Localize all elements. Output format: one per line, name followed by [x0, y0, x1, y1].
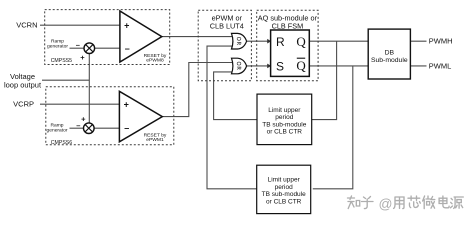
svg-text:generator: generator: [47, 127, 68, 133]
wire OR G1 output to R input of latch: [247, 40, 271, 42]
svg-text:–: –: [76, 41, 80, 50]
svg-text:–: –: [125, 44, 130, 54]
svg-text:S: S: [276, 59, 284, 73]
svg-text:DB: DB: [385, 50, 395, 57]
watermark zhihu @yongxinzuodianyuan (CJK drawn as paths): [348, 196, 464, 209]
wire PWML output: [410, 65, 426, 67]
OR gate G2: [232, 58, 247, 74]
svg-text:generator: generator: [47, 43, 68, 49]
mixer X2 (multiplier circle): [84, 123, 95, 134]
wire Qbar output to DB sub-module: [309, 65, 368, 67]
limit box B2 (Limit upper period TB sub-module or CLB CTR): [257, 165, 311, 213]
ePWM or CLB LUT4 dashed box: [198, 10, 251, 80]
wire mixer X1 output to comparator U1 - input: [95, 47, 120, 49]
wire VCRP to comparator U2 + input: [40, 103, 120, 105]
svg-text:PWMH: PWMH: [429, 37, 453, 46]
wire ramp generator to mixer X1: [70, 47, 85, 49]
svg-text:–: –: [124, 123, 129, 133]
svg-text:or CLB CTR: or CLB CTR: [266, 199, 302, 206]
wire limit box B1 output to OR gate G2 bottom input: [214, 72, 257, 120]
svg-text:CLB LUT4: CLB LUT4: [210, 21, 244, 30]
glyph zuo: [423, 196, 435, 209]
svg-text:PWML: PWML: [429, 61, 452, 70]
wire Qbar feedback down to limit box B2: [313, 66, 353, 189]
svg-text:Q: Q: [296, 58, 306, 73]
svg-text:CMPSS5: CMPSS5: [51, 58, 72, 64]
svg-text:+: +: [124, 99, 129, 109]
DB sub-module box: [368, 29, 410, 79]
svg-text:+: +: [81, 115, 86, 124]
svg-text:ePWM1: ePWM1: [146, 137, 164, 143]
svg-text:CLB FSM: CLB FSM: [272, 21, 304, 30]
svg-text:@: @: [379, 197, 393, 212]
wire voltage loop output: [42, 79, 89, 81]
svg-text:Limit upper: Limit upper: [268, 107, 301, 114]
comparator U2 (CMPSS6): [119, 91, 162, 142]
SR latch U3: [271, 30, 310, 76]
wire mixer X2 output to comparator U2 - input: [94, 127, 119, 129]
svg-text:Q: Q: [296, 34, 306, 49]
wire comparator U1 output to OR gate G1 top input: [162, 36, 235, 38]
wire limit box B2 output to OR gate G1 bottom input: [207, 46, 258, 189]
arrowhead at S input: [267, 64, 271, 69]
wire Q output to DB sub-module: [309, 40, 368, 42]
glyph xin: [408, 196, 420, 208]
comparator U1 (CMPSS5): [120, 11, 162, 62]
wire ramp generator to mixer X2: [70, 127, 84, 129]
wire PWMH output: [410, 40, 426, 42]
svg-text:Limit upper: Limit upper: [268, 177, 301, 184]
glyph hu: [362, 197, 374, 209]
svg-text:–: –: [76, 121, 80, 130]
svg-text:R: R: [276, 35, 285, 49]
svg-text:period: period: [275, 184, 293, 191]
svg-text:TB sub-module: TB sub-module: [262, 121, 306, 128]
OR gate G1: [232, 33, 247, 49]
svg-text:or CLB CTR: or CLB CTR: [267, 129, 303, 136]
mixer X1 (multiplier circle): [84, 43, 95, 54]
wire VCRN to comparator U1 + input: [40, 24, 120, 26]
CMPSS5 dashed box: [45, 10, 170, 65]
svg-text:ePWM8: ePWM8: [146, 58, 164, 64]
CMPSS6 dashed box: [46, 87, 174, 145]
svg-text:+: +: [80, 53, 85, 62]
arrowhead at R input: [267, 39, 271, 44]
glyph dian: [439, 196, 449, 208]
limit box B1 (Limit upper period TB sub-module or CLB CTR): [257, 94, 312, 145]
wire OR G2 output to S input of latch: [247, 65, 271, 67]
svg-text:loop output: loop output: [4, 80, 42, 89]
svg-text:period: period: [275, 114, 293, 121]
svg-text:VCRP: VCRP: [13, 100, 34, 109]
svg-text:+: +: [124, 20, 129, 30]
glyph zhi: [348, 196, 360, 209]
svg-text:VCRN: VCRN: [16, 21, 37, 30]
wire Q feedback down to limit box B1: [312, 41, 337, 119]
svg-text:Sub-module: Sub-module: [371, 57, 408, 64]
svg-text:CMPSS6: CMPSS6: [51, 140, 72, 146]
glyph yuan: [451, 197, 464, 208]
wire comparator U2 output to OR gate G2 top input: [162, 63, 235, 117]
AQ sub-module or CLB FSM dashed box: [257, 10, 318, 80]
svg-text:TB sub-module: TB sub-module: [262, 191, 306, 198]
wire voltage loop vertical feeding mixers X1 and X2: [88, 48, 90, 128]
glyph yong: [394, 197, 404, 209]
